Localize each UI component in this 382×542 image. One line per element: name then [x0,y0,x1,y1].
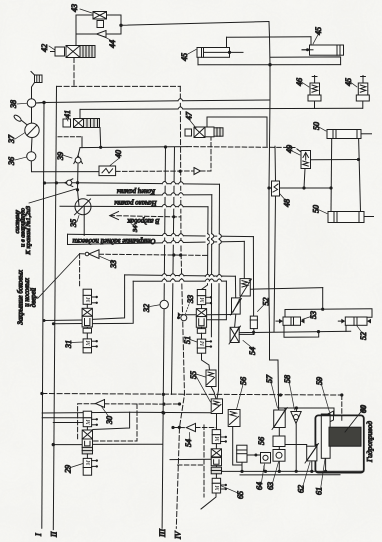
wire bus3 corner down to left stack [93,275,125,319]
cylinder 50a [327,130,372,139]
valve 47 [185,127,223,138]
pressure pickup bracket [31,72,42,99]
filter 40 [99,166,116,176]
wire dashed drop from valve42 [73,58,75,87]
wire rail II right bus [53,86,56,529]
wire hline y332 [239,331,350,332]
shutoff valve 55 lower [211,399,222,414]
svg-text:45: 45 [180,53,189,61]
svg-text:52: 52 [262,298,271,306]
svg-text:29: 29 [64,465,73,473]
wire dashed stack right pilot [203,425,205,497]
solenoid valve stack 29 lower-left [82,411,98,475]
wire check54 line to lower stack [196,427,217,429]
svg-text:57: 57 [265,374,274,383]
wire hline y65 under cylinders [198,64,341,66]
valve block 63 [273,436,285,461]
wire v x78 check39 to pump35 [78,164,80,206]
svg-text:дверей: дверей [31,287,38,307]
cylinder 45a [197,48,243,58]
spring valve 52a [240,279,252,298]
check valve 48 [194,168,201,175]
valve 41 [63,119,100,128]
svg-text:52: 52 [359,332,368,340]
wire link 63 area to 62 [285,445,307,447]
svg-text:33: 33 [109,260,118,269]
wire bottom rail y475 [240,474,340,476]
svg-text:34: 34 [132,225,139,233]
restrictor circle 33c [177,315,187,321]
wire x334 into unit60 [333,408,335,415]
wire 56b bottom to rail [241,462,243,471]
svg-text:43: 43 [70,4,79,12]
wire box57 bottom to box63 [278,428,280,437]
wire hline y183 ramp end line [45,183,220,185]
wire vline into cyl45a top [226,37,228,47]
wire dashed after check48 up to valve47 [201,138,212,172]
svg-text:54: 54 [184,439,193,447]
wire right stack X-box input arrow line [181,314,196,316]
wire corner x214 down [210,195,212,337]
wire vline x225.4 from stack output up to bus4 [207,281,227,320]
svg-text:65: 65 [236,491,245,499]
wire vline B x275 [274,146,277,181]
svg-text:46: 46 [295,78,304,86]
crossing hops [162,99,222,284]
damper valve 45c [356,76,369,109]
svg-text:II: II [50,531,59,538]
wire 61 box bottom [325,458,327,471]
shutoff valve 55 upper [206,370,216,387]
wire hline y195 ramp start line [87,194,212,197]
svg-text:В гидробак: В гидробак [127,217,160,224]
throttle box b [231,298,242,315]
svg-text:58: 58 [283,375,292,383]
check valve 33 [85,250,99,259]
arrow to tank [110,212,119,220]
relief valve 49 [301,151,311,169]
cylinder 45b [302,45,344,55]
wire bus2 y244 [68,241,245,244]
wire v x82 [81,137,83,148]
svg-text:55: 55 [189,371,198,379]
wire vline B below box48 [274,196,276,332]
damper valve 46 [308,76,321,109]
wire 64 box to rail [263,466,265,471]
annotation texts [14,188,374,463]
wire y444 right of stack [93,443,163,445]
svg-text:45: 45 [344,78,353,86]
svg-text:33: 33 [186,295,195,304]
wire dashed link y136 [58,136,82,138]
wire right stack X-box output right [207,314,232,316]
svg-text:62: 62 [297,485,306,493]
hydraulic lock 52b [338,317,371,325]
wire drop to check39 [78,148,80,156]
svg-text:50: 50 [312,205,321,213]
check valve 30 [96,400,105,408]
wire dashed rail IV long middle dashed [176,86,184,528]
valve 43 [76,12,121,46]
wire main y444 from rail II [53,444,82,446]
svg-text:56: 56 [239,377,248,385]
wire dashed top link y86 [57,85,181,87]
svg-text:64: 64 [255,482,264,490]
wire vline x358 [359,134,361,212]
hand pump 35 [75,199,92,215]
wire drop into valve41 [79,109,81,118]
svg-text:30: 30 [105,416,114,425]
svg-text:систему: систему [14,210,21,234]
svg-text:60: 60 [359,405,368,413]
wire rod stub cyl45b [302,49,310,51]
wire hline y147 dashed part to valve49 [187,147,301,152]
wire hline y412 to valve55 lower [130,411,212,414]
wire corner x340 up to y57 [270,57,341,65]
check valve 58 [291,412,301,424]
svg-text:31: 31 [64,340,73,349]
wire leader diagonal to text2 [38,254,79,298]
wire dashed check30 right loop [93,404,137,441]
svg-text:51: 51 [183,336,192,344]
check valve 54 [186,423,195,431]
wire hline y37 cylinder feed [227,36,312,39]
svg-text:М: М [215,485,221,492]
wire x278 down to box57 [277,360,280,410]
check valve 44 [76,25,121,37]
solenoid valve stack 31 upper-left [82,289,98,353]
wire hline y408 [279,407,334,409]
svg-text:37: 37 [7,134,16,144]
wire dashed check30 left corner [78,404,96,440]
check valve 33b on suction [65,179,73,187]
wire step x129 down [93,412,130,429]
wire bracket left end bus1-bus2 [67,234,69,244]
wire hline y159 valve49 to x358 [310,159,359,161]
wire y360 link to 57 [270,359,279,361]
wire hline y188 [269,187,331,189]
wire valve52 right up [367,309,372,317]
svg-text:49: 49 [285,145,294,153]
svg-text:39: 39 [56,152,65,161]
accumulator 56b [237,445,247,462]
wire rail III middle vertical [162,147,165,528]
svg-text:35: 35 [69,219,78,228]
wire check58 bottom [295,424,297,471]
hydraulic lock 53 [276,317,305,325]
wire valve49 bottom [304,169,305,189]
wire vline x331 cyl50a to cyl50b [330,139,333,212]
wire corner x207.8 down to right stack [202,207,208,289]
svg-text:59: 59 [315,377,324,385]
wire hline y147 [80,147,187,148]
solenoid valve stack 51 upper-right [196,290,212,354]
svg-text:45: 45 [314,27,323,35]
wire cyl45a bottom drop [197,57,199,65]
wire lower stack M top drop [216,428,218,430]
gauge circle 36 [27,152,36,161]
wire right stack bottom to valve55 [202,353,210,370]
wire valve41 bottom drop [99,128,102,148]
svg-text:44: 44 [108,40,117,48]
wire bus1 corner down x253 to accumulator [252,237,254,317]
wire vline x234.8 to throttle box [234,276,236,298]
wire dashed check30 branch [105,403,180,405]
svg-text:Начало рампы: Начало рампы [114,199,158,206]
wire lower stack bottom to drain [201,493,216,509]
wire hline y206 [60,205,208,208]
filter 57b [272,408,287,430]
check valve 39 [74,156,83,164]
wire left stack X-box input lines [44,319,82,322]
valve 48b inline [272,181,280,196]
wire box63 to circlebox [278,447,280,450]
svg-text:47: 47 [185,111,194,120]
wire bus2 corner down x244 to spring valve [243,241,245,278]
wire valve47 top port [207,117,267,146]
wire vline x174 [172,147,175,394]
restrictor circle 32 [160,300,168,308]
svg-text:50: 50 [312,122,321,130]
motor box 62 [305,444,319,464]
throttle box c [229,326,241,344]
wire x296 check58 top [295,408,297,411]
valve 42 [51,46,96,58]
svg-text:I: I [34,533,43,537]
wire top bus y25 from valve43 junction to right corner [121,22,269,26]
hand pump 37 [13,114,39,152]
wire valve53 bottom loop [284,325,319,337]
wire dashed tank line y216 [110,216,181,217]
wire feed y413 from rail I [42,411,129,414]
wire dashed y255 right part [99,254,208,255]
svg-text:53: 53 [309,311,318,319]
wire hline y109 second feed [80,108,363,109]
wire left stack second input [53,323,82,325]
wire feed left stack lower y422 [53,422,83,424]
solenoid valve stack 65 lower-middle [211,430,227,493]
wire feed left stack lower y418 [42,417,83,419]
svg-text:IV: IV [174,530,183,540]
wire check54 dashed left [173,427,186,429]
wire circlebox down to rail [278,461,280,471]
pump unit 61 [321,414,330,458]
cylinder 50b [328,212,374,223]
gauge 64 [261,453,271,464]
wire bus4 y281 [133,280,226,282]
swash plate 59 [325,411,334,425]
wire corner x322 down [322,288,324,310]
wire valve52 bottom drop [345,325,347,331]
wire valve53 top feed [284,310,286,318]
wire dashed y254 check33 line [80,253,86,255]
hydraulic drive 60 [315,415,363,472]
shutoff valve 56a [228,410,240,427]
wire 62 box to rail [311,461,313,471]
wire dashed y465 [178,464,205,466]
wire bus3 y275 [125,275,236,276]
gauge circle 38 [27,99,44,124]
svg-text:41: 41 [63,110,72,118]
wire vline into cyl45b top [310,37,312,45]
svg-text:Гидропривод: Гидропривод [365,421,374,463]
svg-text:36: 36 [7,157,16,166]
wire valve55 lower bottom [216,414,218,428]
svg-text:61: 61 [315,487,324,495]
svg-text:48: 48 [283,199,292,207]
wire pump35 bottom [83,207,85,236]
accumulator small [239,316,257,334]
svg-text:Открытие задней подвески: Открытие задней подвески [72,237,156,245]
svg-text:40: 40 [114,150,123,158]
wire hline y100 main feed [36,100,270,103]
wire valve55 upper to lower [211,387,216,399]
svg-text:32: 32 [142,304,151,313]
wire y459 link [170,458,212,460]
wire spring box feed y289 to cluster right [250,288,322,290]
wire 56a bottom down [233,427,242,465]
svg-text:56: 56 [257,437,266,445]
wire vline x270 long vertical from top corner down to y360 [269,22,270,361]
svg-text:63: 63 [266,482,275,490]
svg-text:42: 42 [40,44,49,52]
wire bottom rail y471 [212,470,364,472]
wire 56b label-line y446 [245,454,261,456]
wire dashed drop to left stack x79 [79,254,81,288]
svg-text:Конец рампы: Конец рампы [116,188,156,195]
svg-text:54: 54 [248,347,257,355]
wire rail I left bus [42,103,44,529]
wire suction line circle36 to box40 [31,161,99,172]
svg-text:38: 38 [9,100,18,109]
wire dashed y394 page-wide pilot line [42,394,342,396]
wire hline y309 [285,308,372,311]
wire corner x219.5 down to valve55 lower [217,184,220,399]
wire dashed y171 box40 to check48 [116,170,194,172]
wire bus1 y236 [68,234,254,236]
wire dashed drop x341 into unit60 [341,395,343,421]
wire bus4 corner down to left stack [93,281,134,323]
wire leader diagonal to text1 [29,189,77,203]
svg-text:III: III [158,529,167,538]
wire throttle b to throttle c [235,314,236,327]
